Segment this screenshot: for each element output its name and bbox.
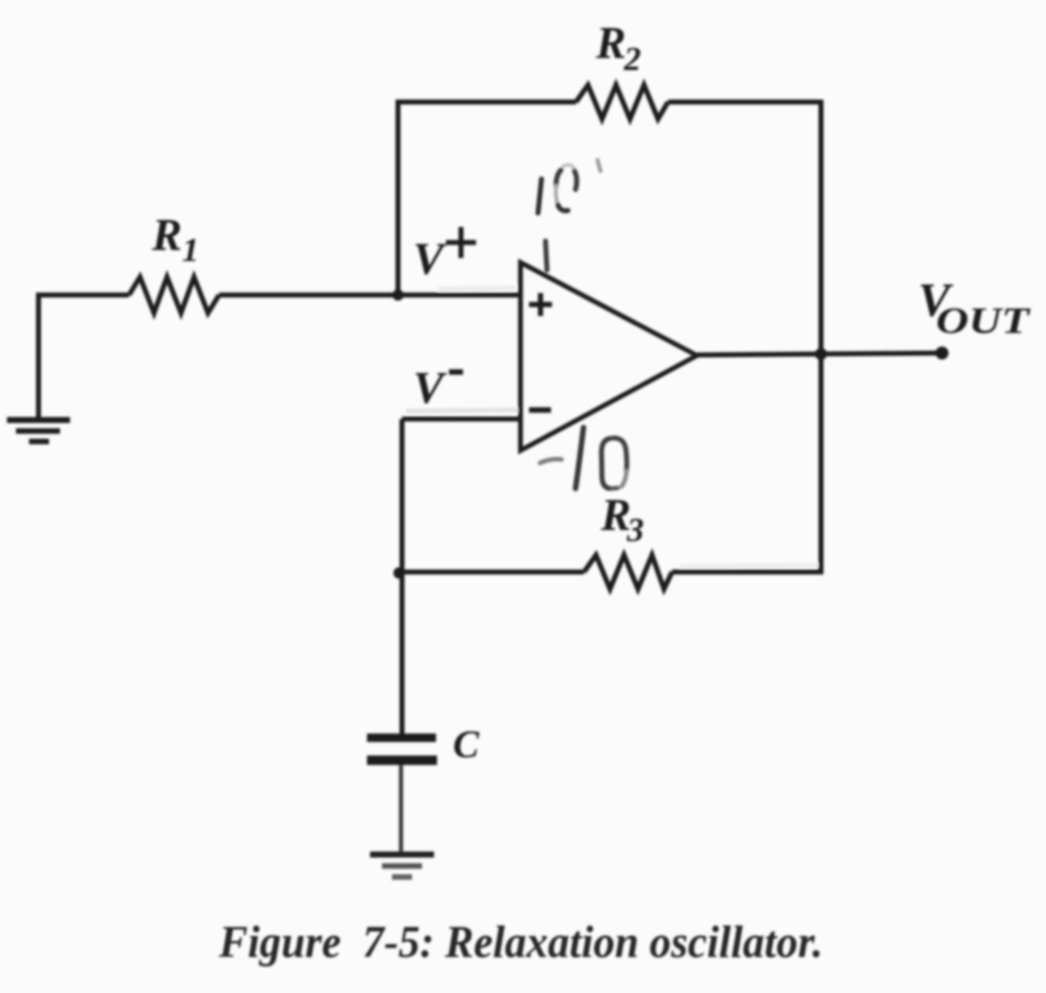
handwritten annotation "-10" below op-amp — [540, 428, 627, 489]
wire: op-amp output to VOUT terminal — [697, 353, 943, 355]
svg-text:1: 1 — [182, 232, 199, 269]
svg-text:Figure 7-5: Relaxation oscill: Figure 7-5: Relaxation oscillator. — [218, 916, 823, 967]
wire: R3 row left lead to node V- — [398, 570, 584, 575]
wire: from R1 to op-amp noninverting input — [219, 293, 521, 298]
svg-text:2: 2 — [623, 41, 641, 78]
node: junction dot V+ on input wire — [392, 289, 403, 300]
wire: top horizontal left lead of R2 — [396, 100, 576, 105]
resistor R1 — [129, 277, 219, 313]
svg-text:OUT: OUT — [936, 301, 1031, 342]
resistor R3 — [584, 555, 672, 589]
svg-text:C: C — [453, 723, 480, 766]
svg-text:3: 3 — [626, 512, 644, 549]
capacitor C — [367, 734, 437, 766]
svg-text:V: V — [413, 362, 447, 413]
node: junction dot output/right rail — [815, 348, 827, 360]
handwritten stroke above triangle top edge — [546, 241, 548, 270]
op-amp U1 triangle — [521, 263, 698, 451]
label V- minus sign — [449, 369, 463, 375]
svg-text:V: V — [413, 233, 447, 284]
wire: top loop left vertical (node V+ up to R2 row) — [396, 100, 401, 295]
wire: inverting input horizontal — [402, 417, 521, 422]
faint scan smudge on right lead of R3 — [680, 565, 818, 566]
ground symbol GND2 (below capacitor) — [370, 855, 434, 878]
wire: right vertical rail from R2 row down to R3 row — [819, 100, 824, 574]
svg-text:R: R — [595, 18, 626, 68]
wire: top horizontal right lead of R2 to right rail — [668, 100, 823, 105]
node: junction dot V- on R3 row — [393, 567, 404, 578]
wire: left vertical from input corner down to ground — [36, 293, 41, 418]
op-amp minus input marking — [529, 407, 551, 413]
wire: R3 row right lead from right rail corner — [672, 570, 823, 575]
ground symbol GND1 (left) — [7, 420, 70, 442]
wire: capacitor to bottom ground — [399, 764, 403, 854]
faint scan smudge left of plus input — [438, 288, 516, 289]
svg-text:R: R — [151, 210, 182, 260]
label V+ plus sign — [446, 227, 476, 258]
resistor R2 — [576, 85, 668, 119]
faint scan smudge above inverting input wire — [406, 410, 518, 411]
node: VOUT terminal dot — [936, 347, 949, 360]
handwritten annotation "10" above op-amp — [538, 160, 601, 213]
wire: input horizontal left lead of R1 — [36, 293, 129, 298]
op-amp plus input marking — [529, 293, 552, 316]
wire: left branch vertical from V- wire down through node to capacitor — [400, 419, 405, 735]
